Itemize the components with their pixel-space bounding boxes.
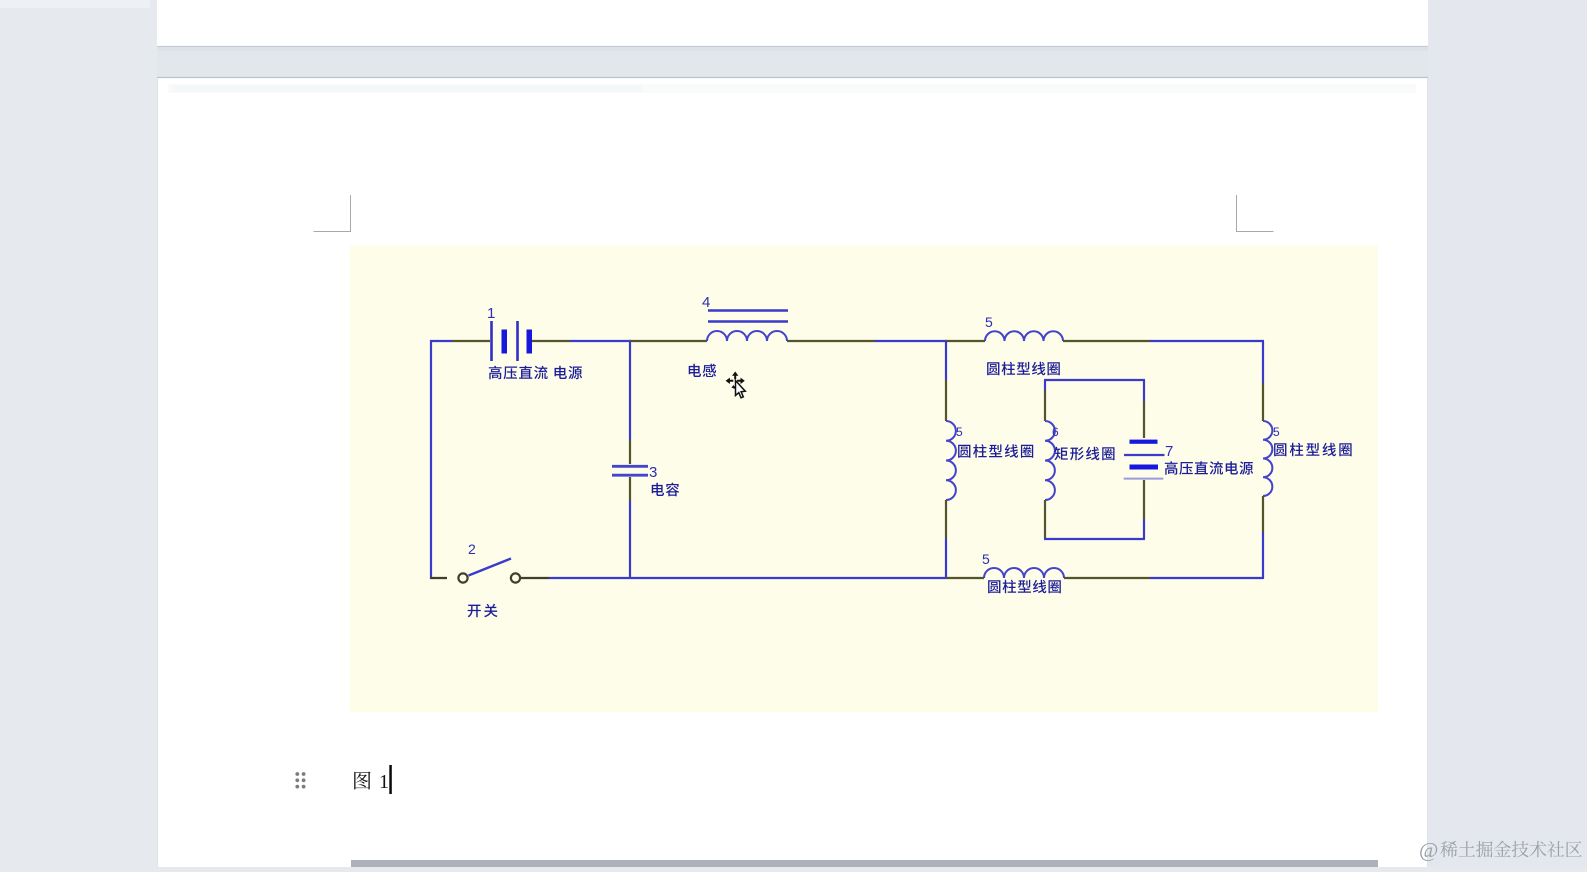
faint ghost text line: [168, 84, 1416, 93]
svg-text:5: 5: [982, 551, 990, 567]
coil 5 right pin upper: [1262, 383, 1264, 421]
inductor L4 pin right: [787, 340, 875, 342]
caption 图 1: [354, 772, 370, 790]
switch pin left: [430, 577, 447, 579]
coil 5 left pin upper: [945, 380, 947, 421]
label 高压直流电源 (battery 1): [489, 366, 502, 380]
battery 1 pin right: [532, 340, 570, 342]
coil 5 right pin lower: [1262, 496, 1264, 532]
label 开关: [468, 605, 481, 618]
coil 5 top pin right: [1063, 340, 1150, 342]
svg-text:3: 3: [649, 464, 657, 481]
inductor L4 pin left: [629, 340, 707, 342]
coil 5 (right, cylindrical): [1263, 421, 1272, 496]
switch terminal circle left: [458, 573, 467, 582]
inductor 4 core lines: [708, 309, 788, 311]
page 2 sheet: [157, 77, 1428, 867]
switch pin right: [521, 577, 549, 579]
switch blade: [469, 559, 512, 576]
svg-text:2: 2: [468, 541, 476, 557]
svg-text:1: 1: [487, 305, 495, 322]
inner rect right: lower stub: [1143, 519, 1145, 539]
svg-text:5: 5: [956, 425, 963, 439]
schematic canvas (yellow): [350, 246, 1379, 713]
wire left rail: [430, 340, 432, 579]
capacitor branch upper: [629, 341, 631, 440]
label 矩形线圈: [1054, 447, 1067, 460]
coil 5 left pin lower: [945, 500, 947, 538]
svg-text:1: 1: [379, 771, 389, 793]
wire bottom: coil to right corner: [1150, 577, 1263, 579]
label 电容: [652, 483, 664, 496]
capacitor 3 pin upper: [629, 440, 631, 464]
coil 6 pin upper: [1044, 390, 1046, 421]
wire top: battery to cap junction: [570, 340, 631, 342]
coil 6 (rectangular coil): [1045, 421, 1055, 500]
label 圆柱型线圈 (top): [987, 362, 999, 375]
coil 5 top pin left: [945, 340, 985, 342]
inner rect right: corner stub: [1143, 380, 1145, 401]
coil 5 (top, cylindrical): [985, 331, 1063, 341]
text boundary mark right: [1237, 195, 1274, 232]
label 圆柱型线圈 (bottom): [988, 580, 1000, 593]
mouse move-cursor icon: [726, 372, 746, 398]
coil 5 bottom pin left: [946, 577, 984, 579]
inner rect bottom edge: [1044, 538, 1145, 540]
label 圆柱型线圈 (left): [958, 445, 970, 458]
capacitor 3 plates: [612, 465, 648, 468]
right rail lower: [1262, 532, 1264, 579]
svg-text:4: 4: [702, 294, 710, 311]
capacitor 3 pin lower: [629, 477, 631, 501]
text caret: [389, 765, 392, 794]
svg-text:@: @: [1419, 838, 1438, 862]
svg-text:5: 5: [1273, 425, 1280, 439]
battery 7 (HV DC source) bars: [1130, 440, 1158, 444]
coil 6 pin lower: [1044, 500, 1046, 538]
coil 5 (left, cylindrical): [946, 421, 956, 500]
text boundary mark left: [314, 195, 351, 232]
right rail upper: [1262, 341, 1264, 383]
label 电感: [689, 364, 701, 377]
battery 7 pin upper: [1143, 401, 1145, 438]
inductor 4 coil: [707, 331, 787, 341]
inner rect top edge: [1044, 379, 1145, 381]
label 高压直流电源 (battery 7): [1165, 461, 1178, 475]
middle branch wire upper: [945, 341, 947, 380]
wire top: L4 to middle junction: [875, 340, 947, 342]
capacitor branch lower: [629, 501, 631, 578]
wire top: coil to right corner: [1150, 340, 1264, 342]
coil 5 (bottom, cylindrical): [984, 568, 1064, 578]
middle branch wire lower: [945, 538, 947, 578]
battery 1 (HV DC source): [490, 321, 493, 361]
svg-text:7: 7: [1165, 443, 1173, 460]
svg-text:6: 6: [1052, 425, 1059, 439]
inner rect left: corner stub: [1044, 380, 1046, 390]
svg-text:5: 5: [985, 314, 993, 330]
wire top: left corner to battery pin: [430, 340, 452, 342]
battery U1 pin left: [452, 340, 490, 342]
label 圆柱型线圈 (right): [1274, 443, 1286, 456]
battery 7 pin lower: [1143, 480, 1145, 519]
switch terminal circle right: [511, 573, 520, 582]
coil 5 bottom pin right: [1064, 577, 1150, 579]
drag handle dots: [295, 772, 305, 788]
wire bottom: switch to middle junction: [549, 577, 946, 579]
bottom gray strip (next object): [351, 860, 1378, 867]
page 1 (bottom sliver): [157, 0, 1428, 46]
